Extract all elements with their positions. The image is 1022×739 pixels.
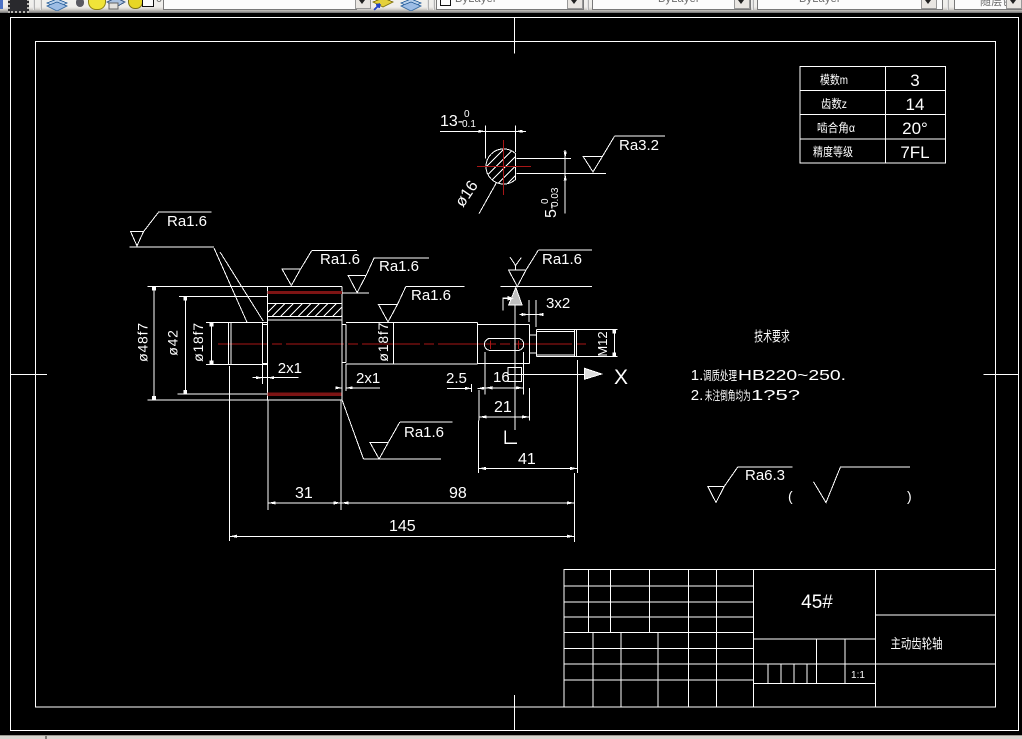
svg-text:Ra3.2: Ra3.2 <box>619 137 659 154</box>
Ra3.2 symbol <box>583 136 665 172</box>
svg-text:齿数z: 齿数z <box>821 96 847 111</box>
svg-text:2.5: 2.5 <box>446 370 467 387</box>
svg-text:Ra6.3: Ra6.3 <box>745 467 785 484</box>
svg-text:Ra1.6: Ra1.6 <box>167 213 207 230</box>
svg-text:1.调质处理HB220~250.: 1.调质处理HB220~250. <box>691 367 846 384</box>
svg-text:98: 98 <box>449 485 467 502</box>
svg-text:2x1: 2x1 <box>278 360 302 377</box>
section X solid arrow <box>584 368 601 379</box>
dim 5-0.03 <box>516 150 606 214</box>
svg-text:41: 41 <box>518 451 536 468</box>
dim 41 <box>478 360 577 473</box>
dim M12 extensions <box>577 328 618 330</box>
M12 threaded end <box>537 328 577 330</box>
gear keyseat line <box>267 319 342 321</box>
shoulder line <box>393 323 395 364</box>
Ra1.6 symbol top-left <box>129 212 214 247</box>
svg-text:45#: 45# <box>801 592 833 613</box>
svg-text:ø48f7: ø48f7 <box>135 322 151 362</box>
svg-text:145: 145 <box>389 518 416 535</box>
step face to keyway journal <box>477 323 479 364</box>
svg-text:Ra1.6: Ra1.6 <box>404 424 444 441</box>
gear hatch band outline <box>267 303 342 316</box>
thread minor diameter lines <box>537 331 575 333</box>
3x2 relief groove <box>530 334 537 336</box>
gear pitch line bottom (red) <box>267 393 342 396</box>
svg-text:1:1: 1:1 <box>851 670 865 681</box>
stub groove 2x1 <box>262 322 264 384</box>
dim o48f7 <box>153 287 155 400</box>
svg-text:2.未注倒角均为1?5?: 2.未注倒角均为1?5? <box>691 387 800 404</box>
dim 21 <box>479 388 529 421</box>
dim 145 <box>229 366 574 541</box>
detail red centerlines <box>477 166 531 168</box>
centering tick right <box>984 374 1019 376</box>
plot style combo <box>954 0 1022 10</box>
svg-text:0.03: 0.03 <box>550 187 561 207</box>
Ra1.6 symbol below (leader from gear bottom right) <box>342 400 453 459</box>
svg-text:精度等级: 精度等级 <box>813 144 853 159</box>
leader diagonals to stub chamfer <box>214 248 247 322</box>
make layer icon <box>372 0 394 11</box>
svg-text:X: X <box>614 366 628 389</box>
color combo <box>436 0 584 10</box>
svg-text:20°: 20° <box>902 119 928 138</box>
centering tick top <box>514 18 516 54</box>
linetype combo <box>592 0 751 10</box>
gear hatch lines <box>263 303 354 316</box>
svg-text:ø18f7: ø18f7 <box>375 322 391 362</box>
dim o42 <box>184 297 186 395</box>
o16 leader <box>479 182 497 213</box>
basic check symbol <box>814 467 911 503</box>
svg-text:ø16: ø16 <box>452 178 482 210</box>
dim 13-0.1 <box>440 125 526 158</box>
svg-text:Ra1.6: Ra1.6 <box>542 251 582 268</box>
keyway slot on shaft <box>484 338 523 350</box>
keyway journal <box>478 324 530 326</box>
svg-text:14: 14 <box>906 95 925 114</box>
svg-text:主动齿轮轴: 主动齿轮轴 <box>891 637 943 652</box>
gear block <box>266 287 268 401</box>
Ra1.6 symbol above shaft body <box>378 287 464 322</box>
dim 2x1 stub <box>252 377 298 379</box>
keyway slot red end marks <box>490 340 492 349</box>
left stub cylinder <box>229 321 268 323</box>
left grid verticals lower <box>592 632 594 707</box>
section hatch <box>439 140 561 195</box>
Ra1.6 symbol above keyway journal <box>500 250 592 286</box>
shaft section o18f7 + body <box>346 322 478 324</box>
stub chamfer line <box>230 322 232 364</box>
datum triangle (filled) <box>509 288 522 305</box>
svg-text:Ra1.6: Ra1.6 <box>411 287 451 304</box>
svg-text:啮合角α: 啮合角α <box>817 120 855 135</box>
lower corner mark <box>505 431 517 444</box>
Ra6.3 symbol <box>708 467 793 503</box>
section circle with keyway flat <box>486 149 515 184</box>
middle region <box>754 638 876 640</box>
position frame box <box>508 367 522 381</box>
dim 2x1 at gear right <box>336 364 381 400</box>
svg-text:技术要求: 技术要求 <box>754 329 790 345</box>
svg-text:21: 21 <box>494 399 512 416</box>
dim 2.5 <box>447 384 483 392</box>
dim o18f7 left <box>211 322 213 364</box>
centering tick bottom <box>514 695 516 731</box>
dim 98 <box>341 502 574 504</box>
right region <box>875 614 995 616</box>
section arrow Y mark <box>510 257 521 271</box>
svg-text:2x1: 2x1 <box>356 370 380 387</box>
svg-text:ø42: ø42 <box>165 329 181 356</box>
lineweight combo <box>757 0 943 10</box>
AutoCAD toolbar strip (cut off at top of screenshot) <box>0 0 1022 13</box>
dim 3x2 <box>528 300 530 322</box>
svg-text:16: 16 <box>493 369 510 386</box>
svg-text:3: 3 <box>910 71 919 90</box>
svg-text:): ) <box>907 488 912 504</box>
svg-text:Ra1.6: Ra1.6 <box>320 251 360 268</box>
section X leader line <box>522 374 585 376</box>
Ra1.6 symbol at gear right <box>343 258 429 293</box>
svg-text:模数m: 模数m <box>820 72 848 87</box>
svg-text:M12: M12 <box>595 331 610 356</box>
left grid horizontals <box>564 585 754 587</box>
layer combo <box>163 0 357 10</box>
svg-text:3x2: 3x2 <box>546 295 570 312</box>
svg-text:Ra1.6: Ra1.6 <box>379 258 419 275</box>
svg-text:0.1: 0.1 <box>462 119 476 130</box>
cutting plane line <box>514 305 516 430</box>
upper corner mark with arrow <box>503 298 510 310</box>
left grid verticals upper <box>588 569 590 632</box>
svg-text:7FL: 7FL <box>900 143 929 162</box>
svg-text:31: 31 <box>295 485 313 502</box>
gear pitch line top (red) <box>267 291 342 294</box>
shaft centerline (red) <box>218 343 590 345</box>
Ra1.6 symbol above gear <box>282 251 357 286</box>
groove 2x1 at gear right <box>345 325 347 363</box>
dim 31 <box>268 400 341 510</box>
dim 16 <box>480 352 523 395</box>
svg-text:13-: 13- <box>440 113 463 130</box>
svg-text:ø18f7: ø18f7 <box>190 322 206 362</box>
centering tick left <box>10 374 47 376</box>
svg-text:(: ( <box>788 488 793 504</box>
layers icon <box>45 0 69 11</box>
